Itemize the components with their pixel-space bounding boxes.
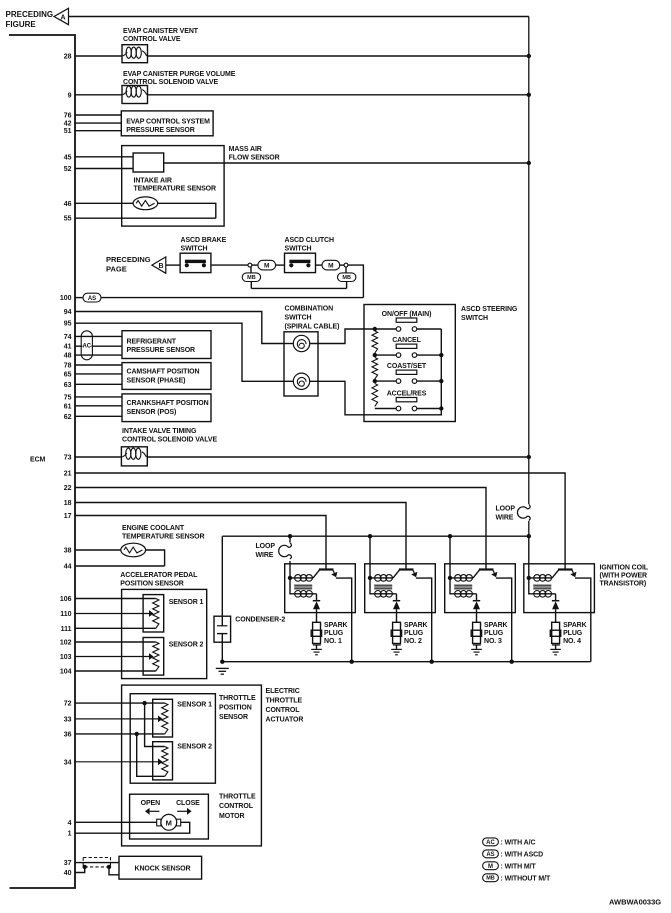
wire pin 9 to solenoid bbox=[75, 94, 122, 96]
svg-text:POSITION SENSOR: POSITION SENSOR bbox=[120, 580, 184, 587]
switch row CANCEL right wire bbox=[417, 354, 442, 356]
svg-text:FIGURE: FIGURE bbox=[6, 20, 37, 29]
accelerator pedal position sensor box bbox=[122, 589, 207, 678]
transistor Q2 base bar bbox=[399, 568, 414, 570]
svg-text:PLUG: PLUG bbox=[563, 630, 583, 637]
svg-text:62: 62 bbox=[64, 414, 72, 421]
transformer core 4 bbox=[533, 584, 551, 586]
MAF sensing element bbox=[133, 153, 164, 172]
svg-text:65: 65 bbox=[64, 371, 72, 378]
spiral cable coil top bbox=[293, 335, 309, 351]
MB bypass wire bbox=[251, 287, 346, 289]
connector oval M1 with M/T bbox=[258, 260, 276, 270]
wire solenoid to right vertical bbox=[148, 55, 529, 57]
coil 2 primary junction bbox=[368, 576, 372, 580]
junction collector 2 / ground bus bbox=[430, 660, 434, 664]
svg-text:ENGINE COOLANT: ENGINE COOLANT bbox=[122, 525, 185, 532]
camshaft position sensor box bbox=[122, 363, 211, 390]
wire secondary to diode 4 bbox=[555, 594, 557, 601]
transistor Q2 collector with arrow bbox=[413, 570, 414, 573]
svg-text:18: 18 bbox=[64, 500, 72, 507]
svg-text:: WITHOUT M/T: : WITHOUT M/T bbox=[501, 875, 551, 882]
svg-text:44: 44 bbox=[64, 564, 72, 571]
wire pin 1 to motor right brush bbox=[75, 822, 190, 833]
EVAP canister vent control valve solenoid L1 bbox=[122, 45, 148, 63]
svg-text:17: 17 bbox=[64, 513, 72, 520]
coil 2 feed wire bbox=[369, 536, 371, 578]
svg-text:37: 37 bbox=[64, 860, 72, 867]
svg-text:ECM: ECM bbox=[30, 457, 46, 464]
engine coolant temperature thermistor bbox=[121, 543, 146, 557]
switch row ON/OFF (MAIN) left contact bbox=[396, 327, 401, 332]
EVAP control system pressure sensor box bbox=[121, 111, 213, 136]
svg-text:M: M bbox=[488, 864, 493, 870]
svg-text:NO. 3: NO. 3 bbox=[484, 638, 502, 645]
wire pin 72 to TPS pot 1 top bbox=[75, 702, 165, 704]
svg-text:CANCEL: CANCEL bbox=[392, 337, 421, 344]
svg-text:CONTROL: CONTROL bbox=[219, 803, 254, 810]
ASCD steering switch box bbox=[364, 305, 455, 422]
svg-text:POSITION: POSITION bbox=[219, 705, 252, 712]
svg-text:WIRE: WIRE bbox=[256, 552, 274, 559]
svg-text:42: 42 bbox=[64, 121, 72, 128]
svg-text:MB: MB bbox=[342, 275, 351, 281]
svg-text:ASCD BRAKE: ASCD BRAKE bbox=[181, 237, 227, 244]
svg-text:M: M bbox=[166, 818, 172, 827]
svg-text:CAMSHAFT POSITION: CAMSHAFT POSITION bbox=[127, 368, 200, 375]
svg-text:36: 36 bbox=[64, 731, 72, 738]
svg-text:LOOP: LOOP bbox=[256, 543, 276, 550]
MB2 lower stub bbox=[346, 282, 348, 289]
svg-text:34: 34 bbox=[64, 759, 72, 766]
throttle motor M bbox=[161, 814, 177, 830]
svg-text:72: 72 bbox=[64, 701, 72, 708]
svg-text:PAGE: PAGE bbox=[106, 265, 127, 274]
switch row COAST/SET left wire bbox=[375, 380, 396, 382]
ignition coil 1 secondary winding bbox=[290, 578, 317, 594]
MB2 stub from node2 bbox=[345, 267, 347, 273]
wire pin 55 bbox=[75, 217, 216, 219]
coil 1 primary junction bbox=[288, 576, 292, 580]
svg-text:102: 102 bbox=[60, 640, 72, 647]
svg-text:COAST/SET: COAST/SET bbox=[387, 363, 427, 370]
wire spiral top to resistor chain bbox=[310, 329, 375, 344]
right common junction dots bbox=[439, 353, 443, 357]
svg-text:AC: AC bbox=[486, 840, 495, 846]
wire pin 94 to spiral cable top bbox=[75, 312, 284, 344]
wire collector 4 to ground bus bbox=[575, 578, 591, 662]
motor M brushes bbox=[157, 819, 161, 826]
spiral cable coil bottom bbox=[293, 373, 309, 389]
junction collector 3 / ground bus bbox=[510, 660, 514, 664]
svg-text:22: 22 bbox=[64, 485, 72, 492]
svg-text:SENSOR 1: SENSOR 1 bbox=[177, 702, 212, 709]
mass air flow sensor box bbox=[122, 146, 224, 227]
transistor Q1 collector with arrow bbox=[333, 570, 334, 573]
resistor R2 chain segment bbox=[372, 358, 378, 380]
svg-text:40: 40 bbox=[64, 870, 72, 877]
refrigerant pressure sensor box bbox=[122, 331, 211, 359]
spark plug 3 body bbox=[473, 622, 481, 643]
transistor Q4 emitter bbox=[552, 570, 559, 578]
wire pin 18 to ignition coil 2 base bbox=[75, 503, 406, 570]
svg-text:52: 52 bbox=[64, 166, 72, 173]
svg-text:THROTTLE: THROTTLE bbox=[219, 794, 256, 801]
wire diode to spark plug 2 bbox=[396, 609, 398, 622]
wire pin 95 to spiral cable bottom bbox=[75, 323, 284, 381]
wire collector 3 to ground bus bbox=[496, 578, 512, 662]
wire brake switch to node bbox=[211, 264, 248, 266]
wire M1 to clutch switch bbox=[276, 264, 285, 266]
resistor R1 chain segment bbox=[372, 331, 378, 353]
wire diode to spark plug 1 bbox=[316, 609, 318, 622]
spark plug 4 electrode bbox=[552, 644, 560, 646]
legend oval M bbox=[483, 862, 499, 870]
throttle control motor box bbox=[130, 794, 209, 839]
ignition supply bus wire bbox=[222, 535, 529, 537]
wire pin 21 to ignition coil 4 base bbox=[75, 473, 565, 570]
svg-text:94: 94 bbox=[64, 309, 72, 316]
svg-text:ELECTRIC: ELECTRIC bbox=[266, 688, 300, 695]
transistor Q3 emitter bbox=[473, 570, 480, 578]
connector oval MB2 without M/T bbox=[338, 273, 356, 282]
wire pin72 branch to TPS pot 2 top bbox=[145, 703, 165, 746]
diode D3 bbox=[473, 600, 480, 602]
wire pin 111 to APPS pot 1 bottom bbox=[75, 627, 156, 629]
coil 3 feed wire bbox=[449, 536, 451, 578]
knock sensor box bbox=[119, 856, 202, 879]
APPS potentiometer 1 with wiper bbox=[153, 599, 159, 629]
junction pin 72 branch bbox=[142, 701, 146, 705]
spark plug 2 ground bbox=[391, 648, 402, 650]
svg-text:41: 41 bbox=[64, 344, 72, 351]
svg-text:AS: AS bbox=[486, 852, 494, 858]
svg-text:63: 63 bbox=[64, 382, 72, 389]
wire pin 40 to shield bbox=[75, 867, 85, 873]
spark plug 3 ground bbox=[471, 648, 482, 650]
ignition coil 3 secondary winding bbox=[450, 578, 477, 594]
svg-text:FLOW SENSOR: FLOW SENSOR bbox=[229, 154, 280, 161]
switch row CANCEL left contact bbox=[396, 353, 401, 358]
svg-text:COMBINATION: COMBINATION bbox=[285, 306, 334, 313]
switch row COAST/SET right wire bbox=[417, 380, 442, 382]
svg-text:75: 75 bbox=[64, 394, 72, 401]
svg-text:111: 111 bbox=[61, 626, 72, 633]
spark plug 4 body bbox=[552, 622, 560, 643]
junction collector 1 / ground bus bbox=[350, 660, 354, 664]
ignition coil 2 secondary winding bbox=[370, 578, 397, 594]
svg-text:21: 21 bbox=[64, 471, 72, 478]
node circle after M2 bbox=[344, 263, 348, 267]
diode D4 bbox=[552, 600, 559, 602]
svg-text:PLUG: PLUG bbox=[324, 630, 344, 637]
switch row COAST/SET left contact bbox=[396, 379, 401, 384]
svg-text:THROTTLE: THROTTLE bbox=[219, 695, 256, 702]
connector oval AC with A/C bbox=[81, 331, 92, 360]
svg-text:: WITH A/C: : WITH A/C bbox=[501, 840, 536, 847]
junction pin9 wire / right vertical bbox=[527, 93, 531, 97]
junction supply bus / coil 1 feed bbox=[288, 534, 292, 538]
svg-text:SPARK: SPARK bbox=[404, 622, 428, 629]
svg-text:: WITH ASCD: : WITH ASCD bbox=[501, 852, 544, 859]
svg-text:SENSOR 1: SENSOR 1 bbox=[169, 599, 204, 606]
wire diode to spark plug 3 bbox=[476, 609, 478, 622]
svg-text:45: 45 bbox=[64, 154, 72, 161]
svg-text:PLUG: PLUG bbox=[484, 630, 504, 637]
legend oval AC bbox=[483, 838, 499, 846]
wire collector 1 to ground bus bbox=[336, 578, 352, 662]
svg-text:: WITH M/T: : WITH M/T bbox=[501, 863, 537, 870]
svg-text:INTAKE VALVE TIMING: INTAKE VALVE TIMING bbox=[122, 428, 197, 435]
switch row ON/OFF (MAIN) left wire bbox=[375, 328, 396, 330]
svg-text:CONTROL: CONTROL bbox=[266, 707, 301, 714]
wire spiral bottom to switch common bbox=[310, 329, 442, 415]
spark plug 2 body bbox=[393, 622, 401, 643]
svg-text:TEMPERATURE SENSOR: TEMPERATURE SENSOR bbox=[134, 186, 217, 193]
svg-text:EVAP CONTROL SYSTEM: EVAP CONTROL SYSTEM bbox=[126, 119, 210, 126]
svg-text:1: 1 bbox=[68, 831, 72, 838]
diode D1 bbox=[313, 600, 320, 602]
svg-text:ACCELERATOR PEDAL: ACCELERATOR PEDAL bbox=[120, 572, 198, 579]
coil 3 primary junction bbox=[448, 576, 452, 580]
wire pin 102 to APPS pot 2 top bbox=[75, 641, 156, 643]
connector oval M2 with M/T bbox=[322, 260, 340, 270]
svg-text:SWITCH: SWITCH bbox=[181, 246, 208, 253]
svg-text:IGNITION COIL: IGNITION COIL bbox=[600, 565, 649, 572]
ignition coil unit 2 box bbox=[365, 564, 436, 613]
svg-text:REFRIGERANT: REFRIGERANT bbox=[127, 338, 177, 345]
switch row COAST/SET right contact bbox=[412, 379, 417, 384]
resistor chain junction dots bbox=[373, 327, 377, 331]
wire pin 28 to solenoid bbox=[75, 55, 122, 57]
ASCD clutch switch box bbox=[285, 253, 316, 272]
wire thermistor to pin 44 bbox=[146, 550, 165, 566]
svg-text:ASCD CLUTCH: ASCD CLUTCH bbox=[285, 237, 334, 244]
svg-text:51: 51 bbox=[64, 128, 72, 135]
condenser C2 inner lead bbox=[221, 616, 223, 626]
svg-text:M: M bbox=[264, 262, 269, 269]
junction MAF output / right vertical bbox=[527, 161, 531, 165]
svg-text:LOOP: LOOP bbox=[496, 506, 516, 513]
ignition ground bus wire bbox=[222, 661, 590, 663]
shield dashed box bbox=[83, 858, 110, 867]
svg-text:SWITCH: SWITCH bbox=[285, 246, 312, 253]
switch row COAST/SET contact bar bbox=[396, 370, 417, 374]
coil 4 primary junction bbox=[527, 576, 531, 580]
wire diode to spark plug 4 bbox=[555, 609, 557, 622]
switch row ACCEL/RES right wire bbox=[417, 408, 442, 410]
svg-text:NO. 2: NO. 2 bbox=[404, 638, 422, 645]
svg-text:MB: MB bbox=[486, 876, 495, 882]
svg-text:61: 61 bbox=[64, 403, 72, 410]
svg-text:PLUG: PLUG bbox=[404, 630, 424, 637]
svg-text:MASS AIR: MASS AIR bbox=[229, 146, 262, 153]
spark plug 1 electrode bbox=[313, 644, 321, 646]
switch row ACCEL/RES left contact bbox=[396, 406, 401, 411]
svg-text:9: 9 bbox=[68, 92, 72, 99]
APPS sensor 1 box bbox=[143, 595, 164, 632]
svg-text:AC: AC bbox=[82, 344, 91, 350]
connector oval MB1 without M/T bbox=[242, 273, 260, 282]
connector oval AS with ASCD bbox=[83, 293, 101, 302]
transformer core 1 bbox=[294, 584, 312, 586]
svg-text:B: B bbox=[158, 263, 163, 270]
wire triangle B to brake switch bbox=[166, 264, 180, 266]
ground symbol at condenser bbox=[216, 667, 229, 669]
svg-text:110: 110 bbox=[60, 611, 71, 618]
MB1 lower stub bbox=[250, 282, 252, 289]
intake valve timing control solenoid L3 bbox=[121, 447, 147, 466]
condenser C2 body bbox=[214, 616, 231, 642]
wire secondary to diode 3 bbox=[476, 594, 478, 601]
svg-text:76: 76 bbox=[64, 113, 72, 120]
wire solenoid to right vertical bbox=[147, 456, 529, 458]
coil 1 feed wire bbox=[289, 536, 291, 542]
svg-text:SENSOR: SENSOR bbox=[219, 714, 248, 721]
svg-text:33: 33 bbox=[64, 716, 72, 723]
switch row ACCEL/RES right contact bbox=[412, 406, 417, 411]
clutch switch contact bbox=[289, 260, 310, 263]
wire collector 2 to ground bus bbox=[416, 578, 432, 662]
svg-text:74: 74 bbox=[64, 334, 72, 341]
transistor Q2 emitter bbox=[393, 570, 400, 578]
spark plug 2 electrode bbox=[393, 644, 401, 646]
svg-text:THROTTLE: THROTTLE bbox=[266, 697, 303, 704]
switch row ACCEL/RES left wire bbox=[375, 408, 396, 410]
svg-text:KNOCK SENSOR: KNOCK SENSOR bbox=[135, 866, 191, 873]
wire pin 17 to ignition coil 1 base bbox=[75, 516, 326, 570]
wire clutch switch to M2 bbox=[316, 264, 323, 266]
svg-text:95: 95 bbox=[64, 321, 72, 328]
svg-text:MOTOR: MOTOR bbox=[219, 813, 244, 820]
wire thermistor to pin 55 bbox=[158, 203, 216, 218]
wire secondary to diode 1 bbox=[316, 594, 318, 601]
svg-text:NO. 1: NO. 1 bbox=[324, 638, 342, 645]
svg-text:CLOSE: CLOSE bbox=[176, 800, 200, 807]
switch row ON/OFF (MAIN) right contact bbox=[412, 327, 417, 332]
svg-text:EVAP CANISTER PURGE VOLUME: EVAP CANISTER PURGE VOLUME bbox=[123, 71, 236, 78]
svg-text:106: 106 bbox=[60, 596, 72, 603]
wire MAF element output to right vertical bbox=[164, 162, 529, 164]
svg-text:AWBWA0033G: AWBWA0033G bbox=[609, 897, 661, 906]
wire node2 right and down to AS line bbox=[348, 265, 364, 298]
spark plug 1 body bbox=[313, 622, 321, 643]
wire pin 73 to solenoid bbox=[75, 456, 121, 458]
junction supply bus / coil 3 feed bbox=[448, 534, 452, 538]
svg-text:SENSOR (PHASE): SENSOR (PHASE) bbox=[127, 377, 186, 384]
ignition coil 4 primary winding bbox=[529, 577, 552, 579]
svg-text:73: 73 bbox=[64, 455, 72, 462]
wire pin 36 to TPS pot 1 bottom bbox=[75, 733, 165, 735]
ignition coil 4 secondary winding bbox=[529, 578, 556, 594]
svg-text:CONTROL SOLENOID VALVE: CONTROL SOLENOID VALVE bbox=[122, 437, 217, 444]
svg-text:TRANSISTOR): TRANSISTOR) bbox=[600, 581, 647, 588]
diode D2 bbox=[393, 600, 400, 602]
svg-text:CONDENSER-2: CONDENSER-2 bbox=[235, 617, 285, 624]
transformer core 3 bbox=[454, 584, 472, 586]
wire pin 37 to knock sensor bbox=[75, 862, 119, 864]
intake air temperature thermistor bbox=[133, 197, 158, 210]
ignition coil 2 primary winding bbox=[370, 577, 393, 579]
svg-text:AS: AS bbox=[88, 296, 96, 302]
MB1 stub from node1 bbox=[250, 267, 252, 273]
svg-text:100: 100 bbox=[60, 295, 72, 302]
svg-text:28: 28 bbox=[64, 54, 72, 61]
loop wire symbol on coil 1 feed bbox=[279, 543, 292, 559]
svg-text:M: M bbox=[328, 262, 333, 269]
wire node to M1 bbox=[252, 264, 258, 266]
EVAP purge control solenoid L2 bbox=[122, 86, 148, 104]
junction pin28 wire / right vertical bbox=[527, 54, 531, 58]
transistor Q1 base bar bbox=[319, 568, 334, 570]
open direction arrow bbox=[150, 810, 160, 812]
connector triangle A bbox=[54, 8, 69, 24]
combination switch box bbox=[284, 332, 318, 396]
ignition coil 3 primary winding bbox=[450, 577, 473, 579]
svg-text:A: A bbox=[60, 14, 65, 21]
wire M2 to node2 bbox=[340, 264, 344, 266]
wire from triangle A to right vertical bbox=[69, 16, 529, 18]
switch row ON/OFF (MAIN) right wire bbox=[417, 328, 442, 330]
TPS potentiometer 1 with wiper bbox=[162, 703, 168, 734]
transistor Q4 collector with arrow bbox=[572, 570, 573, 573]
svg-text:SPARK: SPARK bbox=[484, 622, 508, 629]
svg-text:SENSOR 2: SENSOR 2 bbox=[177, 744, 212, 751]
legend oval MB bbox=[483, 874, 499, 882]
svg-text:103: 103 bbox=[60, 654, 72, 661]
svg-text:NO. 4: NO. 4 bbox=[563, 638, 581, 645]
svg-text:MB: MB bbox=[247, 275, 256, 281]
shield junction dots bbox=[83, 865, 87, 869]
right-side vertical supply wire bbox=[528, 17, 530, 537]
crankshaft position sensor box bbox=[122, 394, 211, 422]
svg-text:PRECEDING: PRECEDING bbox=[106, 255, 151, 264]
svg-text:(SPIRAL CABLE): (SPIRAL CABLE) bbox=[285, 324, 340, 331]
APPS sensor 2 box bbox=[143, 638, 164, 676]
transistor Q3 collector with arrow bbox=[493, 570, 494, 573]
svg-text:46: 46 bbox=[64, 201, 72, 208]
svg-text:SWITCH: SWITCH bbox=[461, 315, 488, 322]
svg-text:38: 38 bbox=[64, 548, 72, 555]
junction pin 73 wire / right vertical bbox=[527, 455, 531, 459]
connector triangle B bbox=[152, 257, 166, 273]
transistor Q1 emitter bbox=[313, 570, 320, 578]
wire pin36 branch to TPS pot 2 bottom bbox=[137, 734, 165, 776]
svg-text:78: 78 bbox=[64, 363, 72, 370]
wire bus left end down to condenser bbox=[221, 536, 223, 616]
svg-text:ACTUATOR: ACTUATOR bbox=[266, 717, 304, 724]
wire pin 106 to APPS pot 1 top bbox=[75, 598, 156, 600]
electric throttle control actuator box bbox=[122, 685, 262, 846]
transistor Q4 base bar bbox=[558, 568, 573, 570]
ignition coil 1 primary winding bbox=[290, 577, 313, 579]
svg-text:104: 104 bbox=[60, 669, 72, 676]
switch row CANCEL right contact bbox=[412, 353, 417, 358]
wire solenoid to right vertical bbox=[148, 94, 529, 96]
wire secondary to diode 2 bbox=[396, 594, 398, 601]
wire AS oval to ASCD circuit bbox=[101, 297, 363, 299]
throttle position sensor box bbox=[130, 694, 215, 784]
svg-text:ASCD STEERING: ASCD STEERING bbox=[461, 306, 518, 313]
ECM boundary outline bbox=[9, 35, 75, 888]
spark plug 3 electrode bbox=[473, 644, 481, 646]
wire pin 46 to thermistor bbox=[75, 202, 133, 204]
switch row CANCEL contact bar bbox=[396, 344, 417, 348]
wire condenser to ground bus bbox=[221, 642, 223, 662]
spark plug 1 ground bbox=[311, 648, 322, 650]
condenser C2 plates bbox=[217, 625, 227, 627]
loop wire symbol on right vertical bbox=[527, 504, 532, 521]
